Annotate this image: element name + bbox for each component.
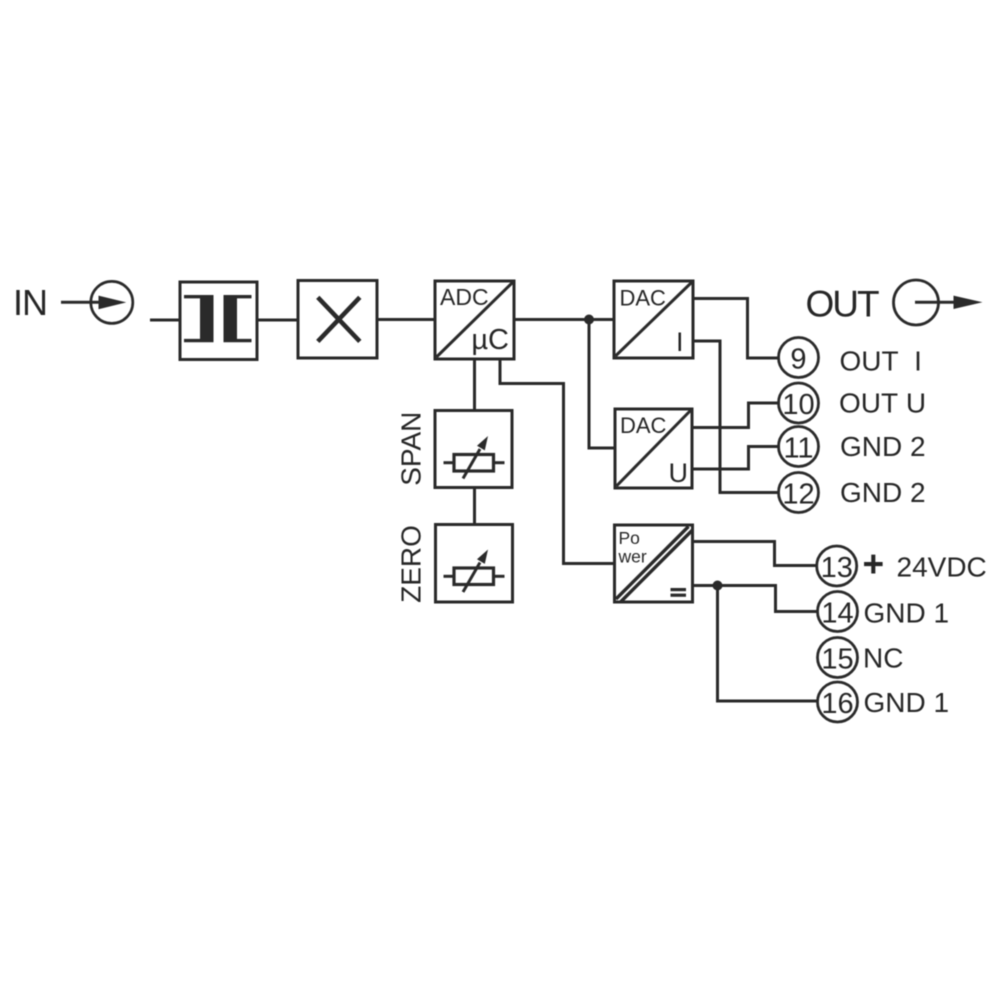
wire SPAN to ZERO [473,488,476,525]
svg-text:9: 9 [790,344,806,376]
transformer T1 primary coil [200,297,214,341]
multiplier block (X) box [298,281,377,359]
svg-text:DAC: DAC [620,286,667,311]
terminal 13 [817,546,857,586]
svg-text:11: 11 [783,433,813,465]
wire transformer to multiplier [257,319,298,322]
terminal 14 [818,592,858,632]
ZERO potentiometer box [436,525,513,603]
wire power to terminal 14 [693,586,819,612]
wire input stub [150,319,180,322]
svg-text:14: 14 [821,598,853,630]
svg-text:16: 16 [821,688,853,720]
svg-text:Po: Po [619,528,640,548]
input port symbol (circle with arrow) [91,281,133,323]
DAC U block U3 [615,409,692,488]
wire ADC to DAC I [514,318,614,321]
svg-text:OUT U: OUT U [839,388,926,419]
svg-text:ADC: ADC [440,284,489,310]
wire IN lead [61,301,100,304]
terminal 15 [818,638,858,678]
wire junction A to DAC U [589,320,615,449]
svg-text:GND 2: GND 2 [840,477,926,508]
transformer T1 (isolation) box [180,282,257,360]
svg-text:SPAN: SPAN [396,412,427,486]
svg-text:DAC: DAC [620,413,667,438]
node junction B [713,581,723,591]
svg-text:GND 2: GND 2 [840,431,926,462]
svg-text:wer: wer [618,547,647,567]
svg-text:13: 13 [821,552,853,584]
svg-text:12: 12 [782,479,814,511]
output port symbol (circle with arrow) [894,280,939,325]
wire power to terminal 13 [693,542,818,566]
SPAN potentiometer box [435,411,512,488]
svg-text:GND 1: GND 1 [864,687,950,718]
wire ADC pin to SPAN [473,359,476,411]
wire DAC U to terminal 10 [692,403,780,428]
svg-text:µC: µC [471,324,509,356]
wire ADC pin to power block [500,359,615,564]
node junction A [584,315,594,325]
terminal 10 [779,383,819,423]
svg-text:GND 1: GND 1 [864,598,950,629]
terminal 16 [818,682,858,722]
svg-text:OUT: OUT [806,284,880,325]
wire DAC I to terminal 12 [693,341,778,493]
terminal 9 [779,338,819,378]
svg-text:IN: IN [13,282,47,323]
ADC / microcontroller block U1 [435,281,514,359]
wire DAC U to terminal 11 [692,447,780,470]
svg-text:OUT I: OUT I [840,346,922,377]
svg-text:24VDC: 24VDC [897,552,987,583]
svg-text:U: U [669,458,689,488]
svg-text:NC: NC [863,643,903,674]
wire multiplier to ADC [377,318,435,321]
svg-text:I: I [676,327,684,357]
wire junction B to terminal 16 [718,586,819,702]
terminal 12 [779,473,819,513]
svg-text:15: 15 [821,644,853,676]
svg-text:10: 10 [782,389,814,421]
svg-text:ZERO: ZERO [396,525,427,603]
DAC I block U2 [614,281,693,358]
terminal 11 [779,427,819,467]
power supply block [615,525,693,602]
transformer T1 secondary coil [224,297,238,341]
wire DAC I to terminal 9 [693,299,778,359]
svg-text:+: + [863,544,885,585]
